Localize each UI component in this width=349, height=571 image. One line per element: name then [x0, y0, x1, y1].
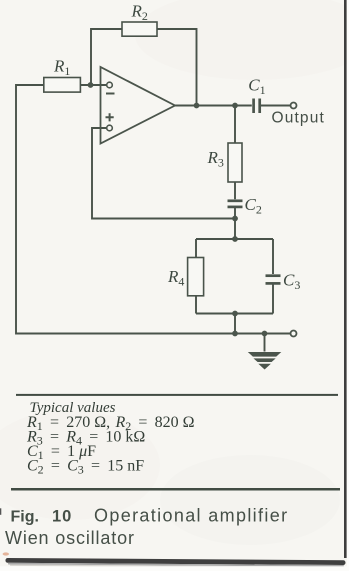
wire: C2 bottom plate down to R4/C3 box top [234, 208, 236, 239]
wire: left vertical from R1 down and bottom horizontal to terminal [16, 85, 291, 334]
ground [248, 352, 281, 370]
op-amp U1 minus sign [106, 93, 115, 95]
svg-text:Operational amplifier: Operational amplifier [94, 506, 288, 526]
resistor R2 [122, 22, 157, 36]
wire: non-inverting input left and down to junction with C2 branch [92, 128, 235, 219]
output terminal [291, 103, 297, 109]
capacitor C1 [254, 99, 260, 114]
node: ground symbol junction [262, 331, 268, 337]
node: op-amp output / feedback junction [194, 103, 200, 109]
wire: box bottom junction down to ground rail [234, 314, 236, 334]
wire: R3 bottom to C2 top plate [234, 182, 236, 199]
capacitor C2 [228, 201, 243, 207]
wire: feedback loop from inverting node up and over to op-amp output [91, 29, 197, 106]
node: output / R3 junction [232, 103, 238, 109]
capacitor C3 [266, 276, 281, 284]
resistor R3 [228, 143, 242, 182]
wire: ground stem [264, 334, 266, 352]
node: R4-C3 box top junction [232, 236, 238, 242]
wire: op-amp output to C1 left plate [175, 105, 252, 107]
node: ground rail junction [232, 331, 238, 337]
resistor R4 [188, 258, 204, 296]
bottom terminal [291, 331, 297, 337]
node: inverting input junction [88, 82, 94, 88]
wire: R4/C3 parallel box bottom side [196, 313, 273, 315]
wire: C1 right plate to output terminal [261, 105, 291, 107]
node: R4-C3 box bottom junction [232, 311, 238, 317]
op-amp U1 plus sign [106, 113, 114, 121]
wire: box left side to R4 [195, 239, 197, 314]
svg-text:C2 = C3 = 15 nF: C2 = C3 = 15 nF [27, 458, 144, 477]
resistor R1 [44, 78, 81, 93]
op-amp U1 non-inverting input circle [107, 125, 113, 131]
wire: R1 right lead to inverting input [81, 84, 107, 86]
rule above typical values [16, 394, 338, 396]
rule below typical values [11, 488, 340, 491]
svg-text:Fig.: Fig. [11, 509, 39, 526]
wire: box right side to C3 plates [272, 239, 274, 314]
op-amp U1 triangle [101, 67, 176, 144]
svg-text:10: 10 [52, 508, 72, 526]
svg-text:Output: Output [272, 110, 325, 127]
svg-text:Wien oscillator: Wien oscillator [5, 528, 135, 548]
wire: output node down to R3 top [234, 106, 236, 144]
node: C2 / non-inverting junction [232, 216, 238, 222]
op-amp U1 inverting input circle [107, 82, 113, 88]
wire: R4/C3 parallel box top side [196, 238, 273, 240]
